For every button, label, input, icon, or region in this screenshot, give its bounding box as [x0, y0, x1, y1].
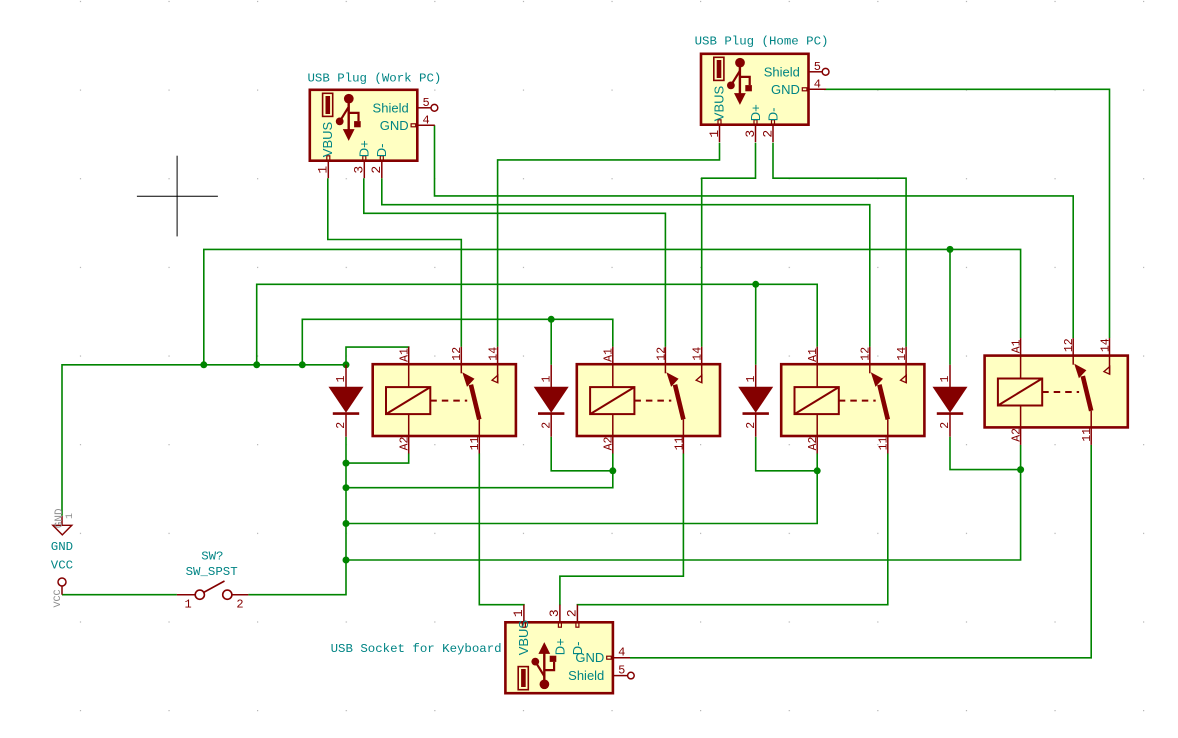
diode D4 triangle	[933, 387, 968, 413]
USB plug P1 (Work PC) USB connector bar graphic	[323, 93, 333, 116]
pin 3 stub	[755, 125, 757, 143]
svg-text:2: 2	[745, 422, 758, 429]
svg-text:11: 11	[469, 436, 482, 450]
wire diode D1 cathode column to switch	[248, 437, 346, 595]
diode D1 triangle	[329, 387, 364, 413]
wire Home D+ pin3 to relay K2 pin14	[702, 143, 756, 347]
svg-text:12: 12	[655, 347, 668, 361]
svg-text:2: 2	[939, 422, 952, 429]
diode D4	[933, 365, 968, 437]
pin A1	[816, 347, 818, 387]
svg-text:11: 11	[673, 436, 686, 450]
USB plug P2 (Home PC) body box	[701, 54, 809, 125]
svg-text:14: 14	[488, 347, 501, 361]
svg-text:VBUS: VBUS	[516, 620, 531, 656]
ground symbol	[53, 508, 76, 535]
relay K2 coupling dashed line	[634, 400, 671, 402]
svg-text:4: 4	[423, 114, 430, 128]
relay K3 body box	[781, 364, 924, 436]
pin 11	[682, 419, 684, 453]
svg-text:Shield: Shield	[568, 668, 604, 683]
junction K2 A2 node	[609, 467, 616, 474]
pin 11	[1090, 411, 1092, 445]
relay K3	[781, 347, 924, 454]
svg-text:1: 1	[745, 376, 758, 383]
wire relay K4 A2 stub join	[1020, 445, 1022, 470]
pin A2	[816, 414, 818, 453]
relay K2 body box	[577, 364, 720, 436]
svg-text:2: 2	[369, 166, 384, 174]
svg-text:3: 3	[547, 609, 562, 617]
svg-text:1: 1	[316, 166, 331, 174]
svg-text:5: 5	[814, 60, 821, 74]
pin A1	[408, 347, 410, 387]
svg-text:D-: D-	[374, 143, 389, 157]
junction K4 feed / D4 anode	[947, 246, 954, 253]
diode D4 pin 2 (cathode)	[949, 414, 951, 437]
svg-text:GND: GND	[380, 118, 409, 133]
pin 1 stub	[327, 161, 329, 179]
pin 5 Shield stub (unconnected)	[417, 107, 431, 109]
svg-text:12: 12	[1063, 338, 1076, 352]
pin 4 GND stub	[613, 657, 630, 659]
svg-text:1: 1	[185, 598, 192, 612]
svg-text:A2: A2	[807, 436, 820, 450]
svg-text:GND: GND	[771, 82, 800, 97]
relay K3 coupling dashed line	[839, 400, 876, 402]
svg-text:VCC: VCC	[51, 558, 73, 572]
pin 2 stub	[381, 161, 383, 179]
wire relay K2 A2 to column	[346, 471, 613, 488]
junction column / K1 A2	[343, 460, 350, 467]
relay K1 switch arm	[471, 385, 479, 420]
USB socket J1 (Keyboard) body box	[505, 622, 613, 693]
junction K3 feed / D3 anode	[752, 281, 759, 288]
wire diode D3 cathode to relay K3 A2	[756, 437, 818, 471]
relay K1 coil	[386, 387, 430, 414]
wire drop to diode D4 anode	[949, 249, 951, 364]
svg-text:SW?: SW?	[201, 549, 223, 563]
USB plug P1 (Work PC) body box	[310, 90, 418, 161]
svg-text:1: 1	[65, 513, 76, 519]
diode D3 pin 2 (cathode)	[755, 414, 757, 437]
svg-text:1: 1	[939, 376, 952, 383]
USB plug P2 (Home PC) USB trident icon	[735, 58, 745, 68]
USB plug P2 (Home PC) USB connector bar graphic	[714, 57, 724, 80]
svg-text:2: 2	[565, 609, 580, 617]
switch SW1 SPST	[177, 581, 249, 612]
svg-text:USB Plug (Home PC): USB Plug (Home PC)	[695, 35, 829, 49]
wire relay K3 A2 stub join	[816, 453, 818, 470]
svg-text:VBUS: VBUS	[711, 85, 726, 121]
svg-text:USB Plug (Work PC): USB Plug (Work PC)	[308, 72, 442, 86]
pin 14	[905, 347, 907, 383]
wire Home GND pin4 to relay K4 pin14	[824, 89, 1110, 338]
pin 5 Shield stub (unconnected)	[809, 71, 823, 73]
USB plug P2 (Home PC)	[701, 54, 829, 142]
origin crosshair marker	[137, 156, 218, 237]
junction bus / D1 anode	[343, 361, 350, 368]
svg-text:4: 4	[618, 646, 625, 660]
svg-text:1: 1	[511, 609, 526, 617]
relay K1 coupling dashed line	[430, 400, 467, 402]
pin 14	[1109, 338, 1111, 374]
diode D2 cathode bar	[538, 412, 564, 415]
USB socket J1 (Keyboard) USB connector bar graphic	[518, 667, 528, 690]
svg-text:A1: A1	[399, 348, 412, 362]
pin A2	[408, 414, 410, 453]
relay K3 coil	[795, 387, 839, 414]
diode D1 pin 2 (cathode)	[345, 414, 347, 437]
pin 4 GND stub	[809, 88, 827, 90]
diode D2 pin 1 (anode)	[550, 365, 552, 387]
svg-text:A1: A1	[1011, 339, 1024, 353]
diode D3	[738, 365, 773, 437]
svg-text:3: 3	[352, 166, 367, 174]
VCC power symbol	[53, 578, 66, 608]
svg-text:14: 14	[1099, 338, 1112, 352]
relay K1	[373, 347, 516, 454]
svg-text:D+: D+	[357, 140, 372, 157]
svg-text:Shield: Shield	[764, 64, 800, 79]
svg-text:D-: D-	[765, 107, 780, 121]
wire relay K4 A2 to column	[346, 470, 1021, 560]
diode D4 pin 1 (anode)	[949, 365, 951, 387]
svg-text:1: 1	[540, 376, 553, 383]
pin 2 stub	[576, 605, 578, 623]
svg-text:5: 5	[618, 664, 625, 678]
pin 14	[701, 347, 703, 383]
diode D1	[329, 365, 364, 437]
junction K4 A2 node	[1017, 466, 1024, 473]
pin 1 stub	[523, 605, 525, 623]
svg-text:11: 11	[878, 436, 891, 450]
pin A1	[612, 347, 614, 387]
relay K1 body box	[373, 364, 516, 436]
svg-text:USB Socket for Keyboard: USB Socket for Keyboard	[331, 642, 502, 656]
diode D2	[534, 365, 569, 437]
pin 11	[478, 419, 480, 453]
diode D3 pin 1 (anode)	[755, 365, 757, 387]
diode D2 triangle	[534, 387, 569, 413]
svg-text:Shield: Shield	[373, 100, 409, 115]
wire Work VBUS pin1 to relay K1 pin12	[328, 178, 462, 347]
wire drop to diode D2 anode	[550, 319, 552, 365]
USB plug P1 (Work PC)	[310, 90, 438, 178]
svg-text:A1: A1	[603, 348, 616, 362]
junction bus / K4 feed	[200, 361, 207, 368]
svg-text:3: 3	[743, 130, 758, 138]
pin 12	[869, 347, 871, 374]
svg-text:A2: A2	[603, 436, 616, 450]
svg-text:11: 11	[1081, 428, 1094, 442]
relay K3 switch arm	[879, 385, 887, 420]
pin 12	[1072, 338, 1074, 365]
svg-text:A2: A2	[1011, 428, 1024, 442]
relay K2 coil	[590, 387, 634, 414]
wire relay K2 A2 stub join	[612, 453, 614, 470]
svg-text:12: 12	[860, 347, 873, 361]
pin A2	[612, 414, 614, 453]
svg-text:2: 2	[760, 130, 775, 138]
svg-text:GND: GND	[51, 540, 73, 554]
pin 5 Shield stub (unconnected)	[613, 675, 628, 677]
pin 2 stub	[772, 125, 774, 143]
wire Work D- pin2 to relay K3 pin12	[382, 178, 870, 347]
pin 12	[460, 347, 462, 374]
wire Home D- pin2 to relay K3 pin14	[773, 143, 906, 347]
svg-text:SW_SPST: SW_SPST	[186, 565, 238, 579]
svg-text:VCC: VCC	[53, 589, 64, 607]
wire relay K2 pin11 to socket D+	[560, 453, 684, 605]
junction column / K2 A2	[343, 484, 350, 491]
relay K2	[577, 347, 720, 454]
relay K2 switch arm	[675, 385, 683, 420]
relay K4	[985, 338, 1128, 445]
wire drop to diode D3 anode	[755, 284, 757, 365]
wire diode D4 cathode to relay K4 A2	[950, 437, 1021, 470]
diode D2 pin 2 (cathode)	[550, 414, 552, 437]
wire VCC to switch pin1	[62, 594, 177, 596]
pin 4 GND stub	[417, 124, 435, 126]
pin 11	[887, 419, 889, 453]
svg-text:2: 2	[335, 422, 348, 429]
svg-text:1: 1	[335, 376, 348, 383]
diode D1 cathode bar	[333, 412, 359, 415]
svg-text:14: 14	[896, 347, 909, 361]
svg-text:GND: GND	[575, 650, 604, 665]
svg-text:12: 12	[451, 347, 464, 361]
wire diode D2 cathode to relay K2 A2	[551, 437, 613, 471]
diode D4 cathode bar	[937, 412, 963, 415]
svg-text:14: 14	[692, 347, 705, 361]
svg-text:1: 1	[707, 130, 722, 138]
wire bus branch to relay K3 A1	[257, 284, 818, 365]
wire coil bus horizontal to GND	[62, 365, 346, 516]
svg-text:D+: D+	[748, 104, 763, 121]
relay K4 coupling dashed line	[1042, 391, 1079, 393]
pin 3 stub	[559, 605, 561, 623]
wire relay K3 A2 to column	[346, 471, 817, 524]
svg-text:A2: A2	[399, 436, 412, 450]
junction K2 feed / D2 anode	[548, 316, 555, 323]
diode D1 pin 1 (anode)	[345, 365, 347, 387]
pin A1	[1020, 338, 1022, 378]
junction column / K3 A2	[343, 520, 350, 527]
svg-text:2: 2	[236, 598, 243, 612]
junction K3 A2 node	[814, 467, 821, 474]
pin A2	[1020, 406, 1022, 445]
wire bus branch to relay K4 A1	[204, 249, 1021, 364]
relay K4 body box	[985, 356, 1128, 428]
svg-text:D+: D+	[552, 638, 567, 655]
wire Work D+ pin3 to relay K2 pin12	[364, 178, 666, 347]
pin 12	[664, 347, 666, 374]
pin 14	[497, 347, 499, 383]
pin 3 stub	[363, 161, 365, 179]
USB socket J1 (Keyboard)	[505, 605, 634, 694]
wire relay K1 A2 to column	[346, 453, 409, 463]
relay K4 switch arm	[1083, 376, 1091, 411]
relay K4 coil	[998, 379, 1042, 406]
junction bus / K3 feed	[253, 361, 260, 368]
wire bus branch to relay K1 A1	[346, 347, 409, 365]
svg-text:A1: A1	[807, 348, 820, 362]
wire socket GND to relay K4 pin11	[630, 445, 1091, 658]
junction column / K4 A2	[343, 557, 350, 564]
wire relay K1 pin11 to socket VBUS	[479, 453, 524, 605]
wire bus branch to relay K2 A1	[302, 319, 613, 365]
wire socket D- to relay K3 pin11	[577, 453, 887, 605]
pin 1 stub	[719, 125, 721, 143]
USB plug P1 (Work PC) USB trident icon	[344, 94, 354, 104]
junction bus / K2 feed	[299, 361, 306, 368]
svg-text:VBUS: VBUS	[320, 121, 335, 157]
USB socket J1 (Keyboard) USB trident icon	[540, 679, 550, 689]
svg-text:4: 4	[814, 78, 821, 92]
svg-text:5: 5	[423, 96, 430, 110]
wire Work GND pin4 to relay K4 pin12	[435, 125, 1074, 338]
wire Home VBUS pin1 to relay K1 pin14	[498, 143, 720, 347]
diode D3 cathode bar	[743, 412, 769, 415]
diode D3 triangle	[738, 387, 773, 413]
svg-text:2: 2	[540, 422, 553, 429]
